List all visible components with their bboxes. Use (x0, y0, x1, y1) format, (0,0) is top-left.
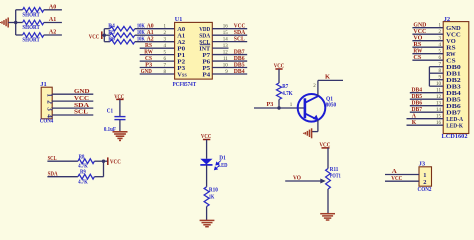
svg-text:4.7K: 4.7K (78, 180, 88, 186)
svg-text:CON4: CON4 (40, 119, 54, 125)
svg-text:SHORT: SHORT (22, 12, 40, 19)
resistor R9 4.7K (47, 176, 78, 178)
wire net CS (140, 60, 175, 62)
wire (119, 99, 121, 116)
ground (311, 128, 313, 138)
wire (254, 107, 305, 109)
junction (102, 160, 105, 163)
power VCC (104, 160, 108, 162)
wire (278, 100, 280, 109)
LED D1 (200, 159, 212, 165)
wire pin 13 DB6 (410, 105, 443, 107)
svg-text:A0: A0 (49, 3, 56, 10)
svg-text:GND: GND (141, 68, 152, 75)
svg-text:16: 16 (436, 121, 442, 126)
svg-text:K: K (412, 119, 417, 126)
svg-text:15: 15 (436, 115, 442, 120)
wire net A (385, 174, 419, 176)
wire net SDA (212, 34, 247, 36)
wire net P3 (140, 67, 175, 69)
resistor SHORT (net A1) (16, 22, 23, 24)
svg-text:VSS: VSS (177, 72, 187, 79)
ground (113, 131, 128, 133)
wire net GND (140, 73, 175, 75)
svg-text:R9: R9 (80, 170, 86, 176)
wire net RS (140, 47, 175, 49)
wire (103, 29, 105, 42)
resistor R6 10K (104, 41, 110, 43)
junction (277, 106, 280, 109)
svg-text:15: 15 (223, 31, 229, 36)
svg-text:R6: R6 (108, 36, 115, 42)
resistor SHORT (net A0) (16, 9, 23, 11)
svg-text:10K: 10K (137, 37, 145, 43)
svg-text:DB4: DB4 (234, 68, 245, 75)
resistor R8 4.7K (47, 160, 78, 162)
wire net RW (140, 54, 175, 56)
resistor SHORT (net A2) (16, 34, 23, 36)
wire pin 14 DB7 (410, 111, 443, 113)
svg-text:SCL: SCL (234, 36, 245, 43)
wire pin 3 VO (412, 40, 443, 42)
wire net DB6 (212, 60, 247, 62)
wire pin 12 DB5 (410, 98, 443, 100)
wire net VCC (212, 28, 247, 30)
wire pin 7 DB0 (429, 66, 443, 68)
svg-text:U1: U1 (175, 16, 183, 23)
pin 13 stub (212, 47, 228, 49)
resistor R5 10K (104, 34, 110, 36)
wire pin 16 LED-K (407, 124, 444, 126)
wire pin 11 DB4 (410, 92, 443, 94)
wire (278, 69, 280, 83)
svg-text:10K: 10K (137, 30, 145, 36)
svg-text:C1: C1 (107, 109, 113, 115)
wire pin 2 VCC (412, 33, 443, 35)
wire net VCC (385, 180, 419, 182)
svg-text:VCC: VCC (391, 175, 402, 182)
resistor R10 1K (204, 187, 209, 207)
wire (327, 189, 329, 213)
ground (7, 18, 9, 28)
wire pin 15 LED-A (407, 118, 444, 120)
resistor R4 10K (104, 28, 110, 30)
wire net K (317, 80, 319, 96)
svg-text:11: 11 (223, 57, 228, 62)
capacitor C1 0.1uF (114, 116, 125, 118)
svg-text:D1: D1 (219, 155, 226, 161)
svg-text:PCF8574T: PCF8574T (173, 82, 197, 88)
wire pin 10 DB3 (429, 85, 443, 87)
wire pin 4 RS (412, 46, 443, 48)
wire wiper (285, 180, 321, 182)
wire net SDA (52, 107, 93, 109)
ground (320, 213, 335, 215)
svg-text:12: 12 (223, 50, 229, 55)
svg-text:14: 14 (223, 37, 229, 42)
wire net DB5 (212, 67, 247, 69)
svg-text:13: 13 (436, 102, 442, 107)
svg-text:10: 10 (223, 63, 229, 68)
svg-text:SCL: SCL (74, 109, 88, 116)
wire (103, 161, 105, 177)
IC U1 PCF8574T (175, 22, 213, 79)
wire pin 9 DB2 (429, 79, 443, 81)
svg-text:R10: R10 (209, 187, 218, 193)
svg-text:10K: 10K (137, 24, 145, 30)
svg-text:R4: R4 (108, 23, 115, 29)
svg-text:LCD1602: LCD1602 (442, 133, 468, 140)
wire net SCL (212, 41, 247, 43)
junction (14, 21, 17, 24)
svg-text:12: 12 (436, 95, 442, 100)
wire (119, 120, 121, 132)
svg-text:R11: R11 (330, 167, 339, 173)
svg-text:CS: CS (413, 54, 422, 61)
svg-text:2: 2 (423, 179, 426, 186)
wire pin 6 CS (412, 59, 443, 61)
svg-text:VCC: VCC (110, 158, 121, 165)
wire pin 5 RW (412, 53, 443, 55)
svg-text:A2: A2 (49, 29, 56, 36)
svg-text:16: 16 (223, 25, 229, 30)
svg-text:SHORT: SHORT (22, 24, 40, 31)
svg-text:14: 14 (436, 108, 442, 113)
wire pin 1 GND (412, 27, 443, 29)
wire net DB7 (212, 54, 247, 56)
svg-text:CON2: CON2 (418, 187, 432, 193)
svg-text:11: 11 (436, 89, 441, 94)
svg-text:1K: 1K (209, 195, 215, 201)
potentiometer R11 POT1 (326, 169, 331, 190)
wire (206, 165, 208, 187)
svg-text:10: 10 (436, 82, 442, 87)
resistor R7 4.7K (277, 83, 282, 100)
svg-text:LED: LED (218, 163, 228, 169)
wire (8, 22, 16, 24)
wire net DB4 (212, 73, 247, 75)
wire net VCC (52, 100, 93, 102)
svg-text:P3: P3 (267, 101, 274, 108)
svg-text:13: 13 (223, 44, 229, 49)
svg-text:4.7K: 4.7K (282, 91, 293, 97)
wire bus tie pins 7-10 (428, 67, 430, 87)
svg-text:R5: R5 (108, 30, 115, 36)
svg-text:8050: 8050 (326, 102, 337, 108)
svg-text:LED-K: LED-K (446, 123, 463, 130)
wire net GND (52, 93, 93, 95)
svg-text:VCC: VCC (74, 95, 89, 102)
wire (15, 10, 17, 35)
wire pin 8 DB1 (429, 72, 443, 74)
svg-text:K: K (325, 74, 331, 81)
svg-text:P4: P4 (202, 71, 211, 78)
svg-text:A1: A1 (49, 16, 56, 23)
svg-text:SHORT: SHORT (22, 37, 40, 44)
wire (317, 120, 319, 132)
wire (206, 140, 208, 159)
svg-text:VCC: VCC (89, 33, 100, 40)
junction (103, 34, 106, 37)
wire net SCL (52, 114, 93, 116)
wire (327, 148, 329, 169)
ground (200, 219, 215, 221)
transistor Q1 8050 (298, 94, 326, 122)
svg-text:R8: R8 (79, 154, 85, 160)
svg-text:POT1: POT1 (330, 173, 341, 179)
wire (206, 207, 208, 221)
svg-text:R7: R7 (282, 84, 288, 90)
